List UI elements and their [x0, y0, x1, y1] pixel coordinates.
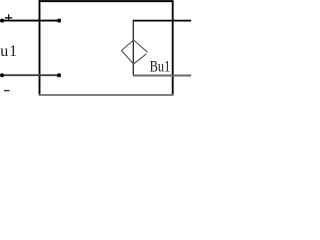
plus polarity mark [5, 14, 12, 21]
svg-text:Bu1: Bu1 [150, 58, 171, 76]
minus polarity mark [4, 90, 10, 92]
box left edge [39, 0, 41, 96]
wire: top port lead [0, 20, 59, 22]
node: bottom inner terminal [57, 73, 61, 77]
node: top inner terminal [57, 19, 61, 23]
node: top-left terminal [0, 19, 4, 23]
box right edge [172, 1, 174, 96]
svg-text:u1: u1 [0, 43, 18, 60]
node: bottom-left terminal [0, 73, 4, 77]
wire: top right rail [133, 20, 191, 22]
wire: bottom port lead [0, 74, 59, 76]
label u1 [0, 43, 18, 60]
dependent source Bu1 (diamond) [122, 40, 148, 64]
label Bu1 [150, 58, 171, 76]
box top edge [39, 0, 174, 2]
box bottom edge [39, 94, 174, 96]
wire: dependent source branch vertical [132, 20, 134, 76]
wire: bottom right rail [133, 75, 191, 77]
